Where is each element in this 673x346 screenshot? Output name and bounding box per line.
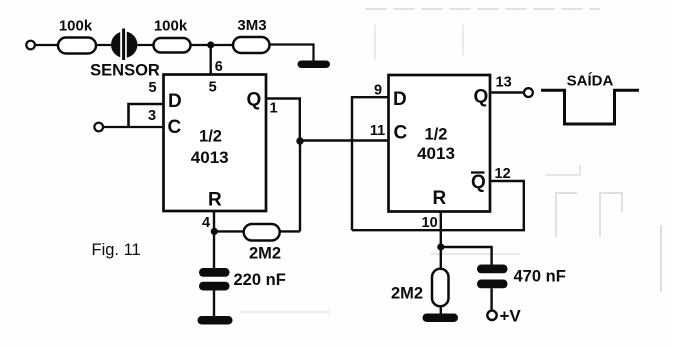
resistor R1 100k (58, 18, 96, 54)
svg-text:13: 13 (496, 75, 512, 91)
resistor R4 2M2 (244, 224, 281, 263)
svg-text:1/2: 1/2 (199, 128, 222, 146)
resistor R3 3M3 (233, 17, 270, 53)
capacitor C2 470nF (477, 265, 566, 289)
svg-text:470 nF: 470 nF (514, 268, 566, 286)
wire R2 to R3 through node A (191, 44, 234, 46)
wire J2 to U1a pin 3 C (103, 126, 164, 128)
wire R5 to ground (440, 306, 442, 315)
ground G3 (423, 314, 459, 323)
terminal +V (487, 307, 521, 326)
svg-text:D: D (393, 89, 407, 110)
wire node B down to R4 (299, 141, 301, 231)
wire node C to R4 (214, 230, 243, 232)
U1b Qbar label (471, 172, 486, 193)
svg-text:R: R (433, 188, 447, 209)
svg-text:SENSOR: SENSOR (90, 61, 160, 79)
junction node C (211, 228, 218, 235)
svg-text:Q: Q (474, 87, 489, 108)
svg-text:9: 9 (374, 83, 382, 99)
svg-text:4: 4 (202, 215, 210, 231)
svg-text:C: C (394, 123, 408, 144)
svg-text:4013: 4013 (417, 144, 455, 163)
wire D-C tie (129, 104, 164, 127)
svg-text:100k: 100k (154, 18, 188, 35)
wire C2 to +V terminal (490, 288, 492, 310)
output waveform SAIDA (541, 73, 639, 125)
svg-text:12: 12 (495, 166, 511, 182)
wire U1b D pin 9 loop left (352, 83, 389, 231)
svg-text:Q: Q (247, 90, 262, 111)
op-amp U1a box (1/2 4013 flip-flop) (164, 75, 267, 212)
resistor R2 100k (154, 18, 191, 53)
svg-text:+V: +V (500, 307, 522, 326)
op-amp U1b box (1/2 4013 flip-flop) (389, 75, 491, 212)
svg-text:Fig. 11: Fig. 11 (92, 241, 141, 259)
svg-text:2M2: 2M2 (391, 285, 423, 303)
svg-text:4013: 4013 (191, 148, 229, 167)
junction node A (207, 41, 214, 48)
wire sensor to R2 (138, 44, 154, 46)
wire U1b Qbar pin 12 loop (352, 166, 524, 230)
svg-text:10: 10 (422, 215, 438, 231)
sensor X1 (piezo disc) (90, 29, 160, 80)
svg-text:SAÍDA: SAÍDA (567, 73, 614, 90)
svg-text:C: C (168, 117, 182, 138)
svg-text:1: 1 (270, 101, 278, 117)
capacitor C1 220nF (199, 268, 286, 291)
svg-text:5: 5 (148, 80, 156, 96)
ground G2 (198, 316, 233, 325)
svg-text:11: 11 (370, 123, 385, 139)
svg-text:220 nF: 220 nF (234, 271, 286, 289)
junction node D (437, 243, 444, 250)
svg-text:R: R (208, 190, 222, 211)
svg-text:Q: Q (471, 172, 486, 193)
svg-text:3: 3 (148, 108, 156, 124)
resistor R5 2M2 (391, 269, 449, 307)
wire R3 to ground (270, 45, 314, 62)
svg-text:5: 5 (209, 80, 217, 96)
wire R4 to node B line (280, 230, 300, 232)
output terminal J3 (524, 88, 533, 97)
input terminal J2 (94, 123, 103, 132)
svg-text:2M2: 2M2 (249, 245, 281, 263)
wire node D to C2 (441, 247, 492, 265)
svg-text:D: D (168, 91, 182, 112)
svg-text:3M3: 3M3 (237, 17, 266, 34)
wire node A to FF1 pin 6 (211, 45, 223, 75)
wire R1 to sensor (96, 44, 112, 46)
svg-text:100k: 100k (59, 18, 93, 35)
ground G1 (298, 61, 331, 69)
input terminal J1 (26, 41, 35, 50)
scan ghost artifacts (240, 9, 661, 312)
wire U1a R pin 4 (202, 211, 214, 269)
wire J1 to R1 (35, 44, 58, 46)
wire U1a Q pin 1 output (266, 99, 300, 142)
junction node B (296, 137, 303, 144)
wire U1b Q pin 13 output (490, 75, 524, 93)
wire C1 to ground (213, 291, 215, 318)
svg-text:1/2: 1/2 (425, 126, 448, 144)
svg-text:6: 6 (215, 59, 223, 75)
wire node B to U2a C pin 11 (300, 139, 389, 141)
wire U1b R pin 10 (422, 212, 441, 269)
